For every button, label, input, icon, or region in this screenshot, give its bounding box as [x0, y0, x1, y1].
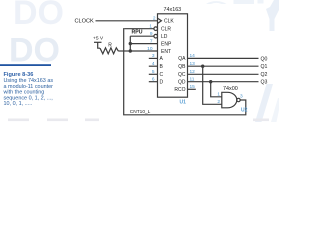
svg-text:12: 12	[190, 69, 196, 75]
svg-text:10, 0, 1, .....: 10, 0, 1, .....	[4, 101, 33, 107]
svg-text:DO: DO	[13, 0, 64, 32]
svg-text:74x163: 74x163	[164, 7, 182, 13]
circuit strokes	[94, 14, 259, 115]
svg-text:CNT10_L: CNT10_L	[130, 109, 151, 115]
svg-text:U1: U1	[180, 100, 187, 106]
wire A stub	[149, 57, 158, 59]
wire pull-up bus vertical	[129, 36, 131, 51]
junction dot bus ENT	[129, 49, 132, 52]
svg-text:4: 4	[152, 61, 155, 67]
svg-text:LD: LD	[161, 34, 168, 40]
svg-text:14: 14	[190, 53, 196, 59]
svg-text:Q0: Q0	[261, 56, 268, 62]
chip U1 74x163 body	[158, 14, 188, 97]
svg-text:6: 6	[152, 77, 155, 83]
watermark faint T top right	[234, 0, 255, 4]
wire C stub	[149, 73, 158, 75]
op bubble CLR	[154, 27, 158, 31]
svg-text:CLOCK: CLOCK	[75, 19, 95, 25]
svg-text:1: 1	[217, 92, 220, 98]
wire B stub	[149, 65, 158, 67]
watermark row1 DO	[9, 0, 279, 122]
figure caption	[3, 72, 54, 107]
wire LD stub	[130, 35, 154, 37]
svg-text:Q2: Q2	[261, 72, 268, 78]
svg-text:15: 15	[190, 84, 196, 90]
figure caption rule	[0, 64, 51, 66]
svg-text:CLK: CLK	[164, 19, 174, 25]
junction dot bus ENP	[129, 42, 132, 45]
black labels	[75, 7, 268, 115]
svg-text:DO: DO	[9, 32, 60, 70]
wire RCO stub	[188, 88, 196, 90]
wire power stem	[98, 42, 100, 48]
watermark faint mark top right	[258, 0, 264, 4]
watermark gray dashes bottom	[8, 119, 269, 122]
svg-text:QB: QB	[178, 64, 186, 70]
svg-text:Q1: Q1	[261, 64, 268, 70]
svg-text:2: 2	[153, 16, 156, 22]
blue pin numbers	[147, 16, 247, 114]
svg-text:74x00: 74x00	[223, 86, 238, 92]
svg-text:CLR: CLR	[161, 27, 171, 33]
svg-text:D: D	[160, 80, 164, 86]
wire ENP stub	[130, 43, 157, 45]
wire QB tap to NAND pin2	[203, 66, 222, 104]
svg-text:ENP: ENP	[161, 41, 172, 47]
svg-text:C: C	[160, 72, 164, 78]
NAND gate U2 74x00 body	[222, 92, 237, 108]
svg-text:Q3: Q3	[261, 80, 268, 86]
svg-text:3: 3	[152, 53, 155, 59]
svg-text:U2: U2	[241, 108, 248, 114]
junction dot QB tap	[201, 65, 204, 68]
svg-text:B: B	[160, 64, 164, 70]
svg-text:R: R	[108, 42, 112, 48]
svg-text:ENT: ENT	[161, 49, 171, 55]
svg-text:RCO: RCO	[174, 87, 185, 93]
watermark faint diagonal bottom right	[255, 84, 273, 122]
op bubble LD	[154, 34, 158, 38]
junction dot QD tap	[209, 80, 212, 83]
watermark faint O top right	[206, 1, 227, 4]
svg-text:11: 11	[190, 77, 195, 83]
wire resistor to bus	[118, 50, 130, 52]
NAND output bubble	[237, 98, 240, 101]
wire ENT stub	[130, 50, 157, 52]
wire CNT10_L loop: NAND output to CLR	[124, 29, 246, 115]
svg-text:13: 13	[190, 61, 196, 67]
wire QC to Q2	[188, 73, 259, 75]
svg-text:2: 2	[217, 99, 220, 105]
svg-text:QA: QA	[178, 56, 186, 62]
svg-text:5: 5	[152, 69, 155, 75]
power +5V bar	[94, 41, 102, 43]
clock triangle CLK	[158, 18, 162, 23]
svg-text:+5 V: +5 V	[93, 36, 104, 42]
svg-text:10: 10	[147, 46, 153, 52]
svg-text:1: 1	[149, 24, 152, 30]
watermark faint Y top right	[266, 0, 279, 31]
resistor R zigzag	[100, 48, 118, 54]
svg-text:A: A	[160, 56, 164, 62]
wire CLR stub	[124, 28, 154, 30]
wire QD to Q3	[188, 81, 259, 83]
svg-text:QD: QD	[178, 80, 186, 86]
wire QD tap to NAND pin1	[211, 82, 222, 97]
svg-text:RPU: RPU	[132, 30, 143, 36]
wire D stub	[149, 81, 158, 83]
svg-text:QC: QC	[178, 72, 186, 78]
wire QB to Q1	[188, 65, 259, 67]
svg-text:7: 7	[150, 38, 153, 44]
svg-text:3: 3	[240, 94, 243, 100]
wire QA to Q0	[188, 57, 259, 59]
wire CLOCK to CLK	[96, 20, 158, 22]
svg-text:9: 9	[150, 31, 153, 37]
